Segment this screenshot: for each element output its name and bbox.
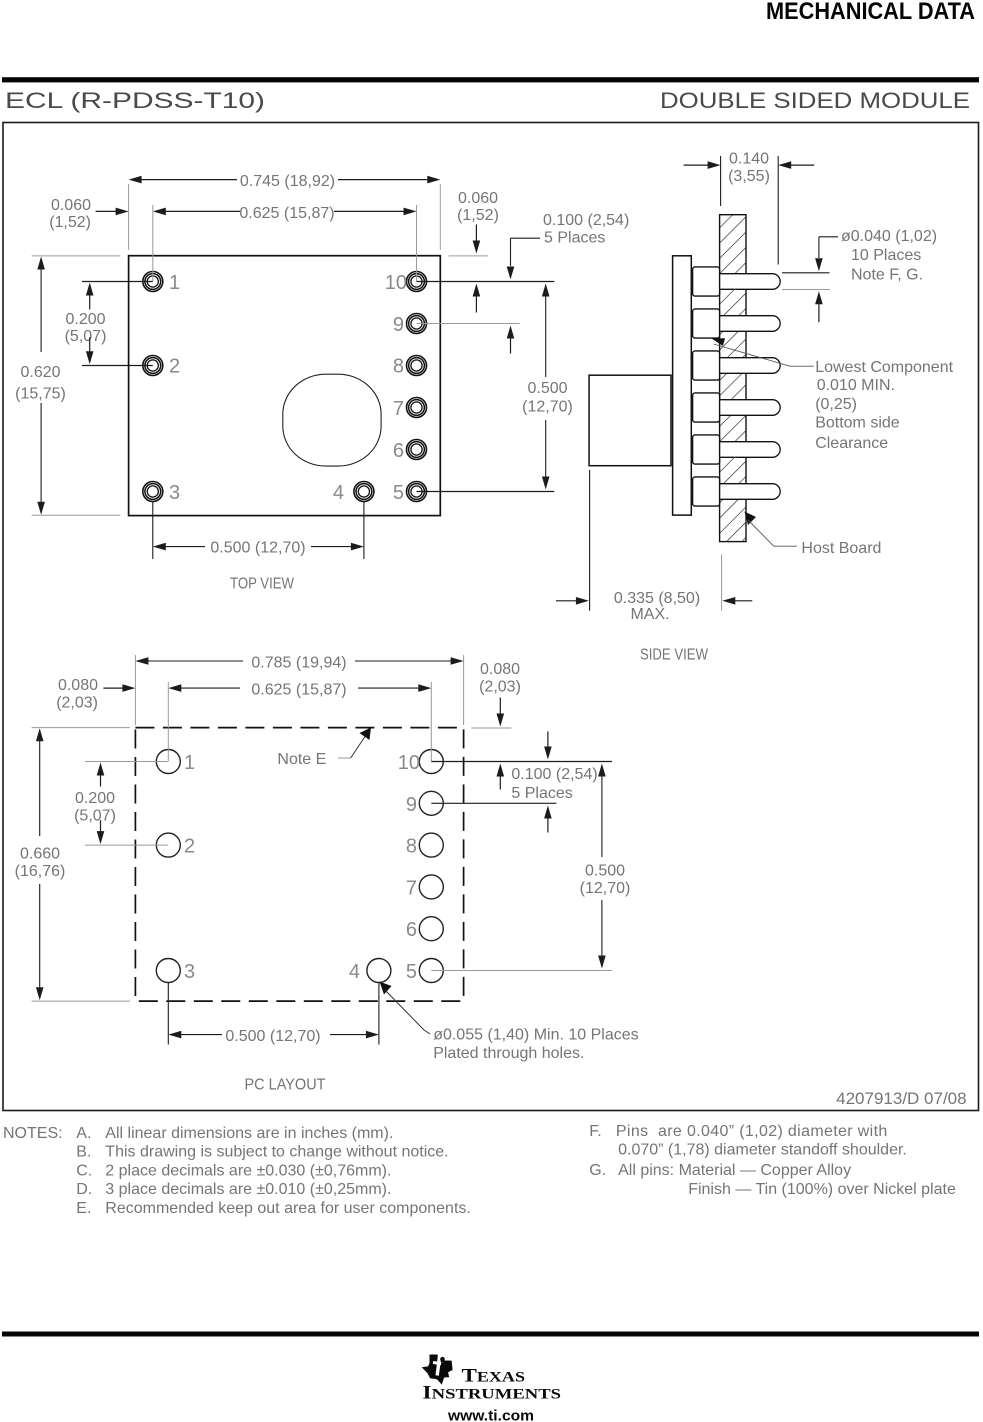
svg-text:(12,70): (12,70) <box>580 880 631 897</box>
extension line pin10 col (0.625) <box>416 205 418 281</box>
side pin 6 shoulder <box>693 477 720 506</box>
svg-text:6: 6 <box>406 919 417 941</box>
keepout dashed rect <box>135 728 463 1002</box>
svg-text:10: 10 <box>398 752 420 774</box>
svg-text:0.660: 0.660 <box>20 846 60 863</box>
pin row line p5 right <box>417 491 555 493</box>
side pin 5 shoulder <box>693 435 720 464</box>
side pin 1 shoulder <box>693 267 720 296</box>
dimension 0.500 (12,70) pc right <box>598 764 606 777</box>
dimension 0.745 (18,92) <box>129 176 142 184</box>
svg-text:(12,70): (12,70) <box>522 399 573 416</box>
svg-text:All pins: Material — Copper A: All pins: Material — Copper Alloy <box>618 1162 851 1179</box>
svg-text:(1,52): (1,52) <box>457 207 499 224</box>
svg-text:5 Places: 5 Places <box>544 230 605 247</box>
pin 2 <box>143 356 163 376</box>
hole 10 <box>419 750 443 774</box>
svg-text:TEXAS: TEXAS <box>462 1367 526 1387</box>
svg-text:E.: E. <box>76 1200 91 1217</box>
hole 8 <box>419 833 443 857</box>
svg-text:0.500: 0.500 <box>527 380 567 397</box>
svg-text:0.060: 0.060 <box>51 197 91 214</box>
svg-text:C.: C. <box>76 1162 92 1179</box>
extension line pin1 col (0.625) <box>152 205 154 281</box>
ext dashed-top right <box>471 727 511 729</box>
extension pin3 down <box>152 501 154 559</box>
ext line host board left bottom <box>721 554 723 610</box>
svg-text:0.100 (2,54): 0.100 (2,54) <box>511 766 597 783</box>
SIDE VIEW group <box>556 151 954 664</box>
pin1 bottom ext line <box>782 289 830 291</box>
pin 4 <box>354 482 374 502</box>
svg-text:0.745 (18,92): 0.745 (18,92) <box>240 173 335 190</box>
pin 7 <box>407 398 427 418</box>
svg-text:0.620: 0.620 <box>20 364 60 381</box>
drawing frame box <box>3 123 979 1111</box>
TI logo texas map glyph <box>422 1355 453 1385</box>
NOTES section <box>3 1123 956 1217</box>
hole 6 <box>419 917 443 941</box>
svg-text:2 place decimals are ±0.030 (±: 2 place decimals are ±0.030 (±0,76mm). <box>105 1162 391 1179</box>
svg-text:(15,75): (15,75) <box>15 386 66 403</box>
svg-text:TOP VIEW: TOP VIEW <box>230 576 295 593</box>
svg-text:5: 5 <box>393 482 404 504</box>
pin 1 <box>143 272 163 292</box>
svg-text:DOUBLE SIDED MODULE: DOUBLE SIDED MODULE <box>660 88 970 113</box>
hole 9 <box>419 791 443 815</box>
extension pin4 down <box>363 501 365 559</box>
svg-text:10 Places: 10 Places <box>851 247 921 264</box>
svg-text:Clearance: Clearance <box>815 435 888 452</box>
svg-text:10: 10 <box>385 272 407 294</box>
row line hole5 right <box>431 970 612 972</box>
svg-text:0.070” (1,78) diameter standof: 0.070” (1,78) diameter standoff shoulder… <box>618 1141 907 1158</box>
svg-text:This drawing is subject to cha: This drawing is subject to change withou… <box>105 1144 448 1161</box>
svg-text:(16,76): (16,76) <box>15 863 66 880</box>
side pin 2 shaft <box>691 316 780 332</box>
svg-text:(3,55): (3,55) <box>728 168 770 185</box>
ext line pin end col <box>777 156 779 265</box>
ext vertical hole3 down <box>167 983 169 1045</box>
svg-text:0.500 (12,70): 0.500 (12,70) <box>225 1028 320 1045</box>
row line hole9 right <box>431 802 556 804</box>
hole 3 <box>156 959 180 983</box>
svg-text:7: 7 <box>393 398 404 420</box>
svg-text:4: 4 <box>349 961 360 983</box>
svg-text:1: 1 <box>184 752 195 774</box>
svg-text:0.200: 0.200 <box>65 311 105 328</box>
dimension 0.500 (12,70) right vertical <box>542 284 550 297</box>
dimension 0.200 (5,07) pc <box>97 763 105 776</box>
host board hatched <box>720 215 746 542</box>
svg-text:NOTES:: NOTES: <box>3 1125 63 1142</box>
pin row line p1 left <box>82 281 153 283</box>
row line hole2 left <box>85 844 168 846</box>
footer thick rule <box>2 1332 979 1337</box>
hole 5 <box>419 959 443 983</box>
svg-text:Finish — Tin (100%) over Nicke: Finish — Tin (100%) over Nickel plate <box>688 1181 956 1198</box>
ext line host board left top <box>720 156 722 206</box>
svg-text:Plated through holes.: Plated through holes. <box>433 1045 584 1062</box>
svg-text:All linear dimensions are in i: All linear dimensions are in inches (mm)… <box>105 1125 393 1142</box>
pin row line p10 right <box>417 281 555 283</box>
extension bottom <box>32 514 121 516</box>
svg-text:9: 9 <box>406 794 417 816</box>
svg-text:3: 3 <box>184 961 195 983</box>
extension line module right top (0.745) <box>439 184 441 250</box>
svg-text:0.500 (12,70): 0.500 (12,70) <box>210 540 305 557</box>
svg-text:6: 6 <box>393 440 404 462</box>
svg-text:Note F, G.: Note F, G. <box>851 267 923 284</box>
pin 3 <box>143 482 163 502</box>
svg-text:4: 4 <box>333 482 344 504</box>
svg-text:0.335 (8,50): 0.335 (8,50) <box>614 590 700 607</box>
svg-text:D.: D. <box>76 1181 92 1198</box>
side pin 6 shaft <box>691 484 780 500</box>
dimension 0.200 (5,07) left <box>86 283 94 296</box>
svg-text:Note E: Note E <box>277 751 326 768</box>
svg-text:0.625 (15,87): 0.625 (15,87) <box>239 205 334 222</box>
side pin 3 shoulder <box>693 351 720 380</box>
svg-text:0.625 (15,87): 0.625 (15,87) <box>251 682 346 699</box>
pin 6 <box>407 440 427 460</box>
svg-text:9: 9 <box>393 314 404 336</box>
pin row line p9 right <box>417 323 520 325</box>
hole 7 <box>419 875 443 899</box>
TOP VIEW group <box>15 173 629 593</box>
svg-text:7: 7 <box>406 877 417 899</box>
header thick rule <box>2 77 979 82</box>
extension line module left top (0.745) <box>128 184 130 250</box>
svg-text:Pins are 0.040” (1,02) diamet: Pins are 0.040” (1,02) diameter with <box>616 1123 888 1140</box>
module outline rect <box>129 256 441 516</box>
svg-text:8: 8 <box>406 836 417 858</box>
svg-text:SIDE VIEW: SIDE VIEW <box>640 647 709 664</box>
svg-text:0.785 (19,94): 0.785 (19,94) <box>251 655 346 672</box>
svg-text:(2,03): (2,03) <box>479 678 521 695</box>
pin1 top ext line <box>782 272 830 274</box>
leader lowest component <box>712 338 726 346</box>
svg-text:0.500: 0.500 <box>585 863 625 880</box>
side pin 1 shaft <box>691 274 780 290</box>
pin 9 <box>407 314 427 334</box>
svg-text:Host Board: Host Board <box>801 540 881 557</box>
svg-text:www.ti.com: www.ti.com <box>447 1409 534 1422</box>
svg-text:0.010 MIN.: 0.010 MIN. <box>817 377 895 394</box>
svg-text:G.: G. <box>589 1162 606 1179</box>
pin 10 <box>407 272 427 292</box>
svg-text:0.080: 0.080 <box>480 661 520 678</box>
transformer circle (squircle) <box>283 374 381 466</box>
svg-text:MECHANICAL DATA: MECHANICAL DATA <box>766 0 975 25</box>
svg-text:(5,07): (5,07) <box>65 328 107 345</box>
svg-text:INSTRUMENTS: INSTRUMENTS <box>422 1384 561 1404</box>
dimension 0.785 (19,94) <box>135 657 148 665</box>
svg-text:Bottom side: Bottom side <box>815 415 900 432</box>
svg-text:0.200: 0.200 <box>75 790 115 807</box>
extension top <box>32 255 121 257</box>
svg-text:(0,25): (0,25) <box>815 396 857 413</box>
svg-text:8: 8 <box>393 356 404 378</box>
pin 5 <box>407 482 427 502</box>
svg-text:ECL (R-PDSS-T10): ECL (R-PDSS-T10) <box>5 88 265 113</box>
svg-text:1: 1 <box>169 272 180 294</box>
leader host board <box>745 512 757 526</box>
PC LAYOUT group <box>15 655 967 1109</box>
dimension 0.625 (15,87) <box>153 208 166 216</box>
side pin 4 shaft <box>691 400 780 416</box>
svg-text:(5,07): (5,07) <box>74 808 116 825</box>
side pin 3 shaft <box>691 358 780 374</box>
dimension 0.500 (12,70) pc bottom <box>168 1031 181 1039</box>
svg-text:ø0.055 (1,40) Min. 10 Places: ø0.055 (1,40) Min. 10 Places <box>433 1027 638 1044</box>
pin 8 <box>407 356 427 376</box>
pin row line p2 left <box>82 365 153 367</box>
hole 4 <box>367 959 391 983</box>
row line hole10 right <box>431 761 612 763</box>
dimension 0.660 (16,76) <box>32 727 130 729</box>
dimension 0.625 (15,87) pc <box>168 684 181 692</box>
module PCB edge rect <box>673 256 692 515</box>
ext vertical hole4 down <box>378 983 380 1045</box>
svg-text:B.: B. <box>76 1144 91 1161</box>
extension module top edge right <box>449 255 489 257</box>
svg-text:5: 5 <box>406 961 417 983</box>
svg-text:Lowest Component: Lowest Component <box>815 359 953 376</box>
svg-text:0.060: 0.060 <box>458 190 498 207</box>
svg-text:MAX.: MAX. <box>630 606 669 623</box>
svg-text:A.: A. <box>76 1125 91 1142</box>
ext lines for 0.625 pc <box>167 682 169 761</box>
svg-text:2: 2 <box>169 356 180 378</box>
svg-text:5 Places: 5 Places <box>511 785 572 802</box>
svg-text:0.140: 0.140 <box>729 151 769 168</box>
svg-text:3: 3 <box>169 482 180 504</box>
svg-text:2: 2 <box>184 836 195 858</box>
hole 1 <box>156 750 180 774</box>
side pin 2 shoulder <box>693 309 720 338</box>
svg-text:(2,03): (2,03) <box>56 695 98 712</box>
side pin 4 shoulder <box>693 393 720 422</box>
row line hole1 left <box>85 761 168 763</box>
svg-text:PC LAYOUT: PC LAYOUT <box>245 1077 326 1094</box>
svg-text:F.: F. <box>589 1123 601 1140</box>
svg-text:3 place decimals are ±0.010 (±: 3 place decimals are ±0.010 (±0,25mm). <box>105 1181 391 1198</box>
svg-text:(1,52): (1,52) <box>49 214 91 231</box>
ext lines for 0.785 <box>134 655 136 725</box>
svg-text:0.100 (2,54): 0.100 (2,54) <box>543 212 629 229</box>
svg-text:4207913/D 07/08: 4207913/D 07/08 <box>836 1089 966 1108</box>
side pin 5 shaft <box>691 442 780 458</box>
svg-text:ø0.040 (1,02): ø0.040 (1,02) <box>841 228 937 245</box>
svg-text:0.080: 0.080 <box>58 677 98 694</box>
hole 2 <box>156 833 180 857</box>
lowest component rect <box>589 375 671 466</box>
svg-text:Recommended keep out area for: Recommended keep out area for user compo… <box>105 1200 471 1217</box>
leader dia 0.055 <box>380 982 392 995</box>
ext line component left <box>589 470 591 611</box>
